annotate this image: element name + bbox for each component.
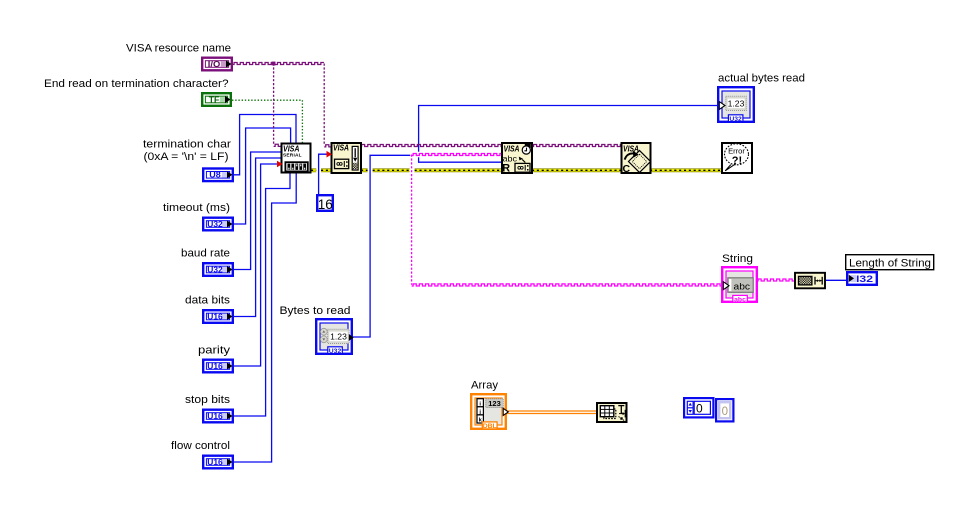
control terminal flow control (U16): [203, 456, 233, 469]
wire: End read on termination character? to serial-config node (dotted green): [232, 100, 302, 143]
svg-text:baud rate: baud rate: [181, 248, 230, 260]
svg-text:I/O: I/O: [208, 60, 221, 69]
svg-text:U32: U32: [729, 116, 742, 123]
wire: Bytes to read to VISA Read byte count: [353, 155, 410, 337]
svg-text:Array: Array: [471, 380, 499, 392]
control terminal timeout (U32): [203, 218, 233, 231]
svg-text:U32: U32: [329, 348, 342, 355]
wire: Array to Array Size (double orange): [507, 411, 598, 414]
svg-text:VISA: VISA: [333, 144, 349, 153]
wire: VISA resource branch down to buffer-size node: [324, 64, 333, 147]
svg-text:actual bytes read: actual bytes read: [718, 73, 805, 85]
svg-text:VISA: VISA: [283, 145, 300, 154]
op-node String Length: [795, 273, 825, 289]
svg-text:U16: U16: [207, 361, 223, 371]
numeric control 0 (data view): [684, 398, 713, 417]
wire: VISA resource branch down to serial-config node: [274, 64, 284, 147]
wire: VISA resource name horizontal run: [233, 62, 324, 64]
svg-text:End read on termination charac: End read on termination character?: [44, 78, 229, 90]
svg-text:parity: parity: [198, 345, 231, 357]
svg-text:C: C: [623, 163, 631, 175]
control terminal End read on termination character? (TF): [202, 93, 231, 106]
svg-text:U32: U32: [207, 264, 223, 274]
wire: VISA resource VISA Read to VISA Close: [532, 144, 623, 146]
svg-text:flow control: flow control: [171, 440, 230, 452]
wire: parity to serial-config node: [234, 164, 282, 366]
wire: flow control to serial-config node: [234, 172, 296, 462]
control terminal baud rate (U32): [203, 263, 233, 276]
label: termination char (0xA = '\n' = LF): [143, 139, 231, 163]
svg-text:U8: U8: [209, 170, 221, 180]
wire: data bits to serial-config node: [234, 158, 282, 317]
svg-text:abc: abc: [734, 282, 751, 292]
error wire: VISA Close to Simple Error Handler: [650, 169, 722, 172]
wire: VISA Read read buffer to String indicator (left, down, right): [412, 153, 723, 286]
op-node Simple Error Handler: [722, 143, 752, 173]
svg-text:0: 0: [722, 406, 728, 418]
svg-text:timeout (ms): timeout (ms): [163, 202, 230, 214]
op-node VISA Set I/O Buffer Size: [332, 143, 362, 173]
control Bytes to read (U32 icon terminal): [316, 319, 353, 355]
svg-text:termination char: termination char: [143, 139, 231, 151]
indicator actual bytes read (U32 icon terminal): [718, 87, 754, 123]
wire: VISA Read return count to actual bytes read: [418, 106, 718, 163]
svg-text:16: 16: [318, 197, 333, 212]
svg-text:Length of String: Length of String: [849, 258, 931, 270]
error wire: VISA Set I/O Buffer Size to VISA Read: [361, 169, 502, 172]
op-node VISA Configure Serial Port: [282, 144, 311, 173]
control terminal termination char (U8): [203, 169, 233, 182]
op-node Array Size: [597, 403, 627, 422]
control terminal VISA resource name (I/O): [202, 58, 232, 71]
svg-text:DBL: DBL: [483, 423, 497, 430]
control Array (DBL array icon terminal): [471, 394, 508, 430]
wire: VISA resource buffer-size node to VISA Read: [360, 144, 503, 146]
svg-text:VISA resource name: VISA resource name: [126, 43, 231, 55]
svg-text:VISA: VISA: [504, 145, 520, 154]
numeric indicator 0: [716, 399, 733, 421]
svg-text:0: 0: [696, 401, 703, 415]
svg-text:1.23: 1.23: [728, 99, 745, 109]
svg-text:123: 123: [488, 399, 501, 408]
svg-text:abc: abc: [734, 296, 746, 303]
control terminal stop bits (U16): [203, 410, 233, 423]
svg-text:U16: U16: [207, 457, 223, 467]
error wire: VISA Read to VISA Close: [532, 169, 621, 172]
indicator Length of String (I32 terminal): [847, 272, 877, 285]
wire: String indicator branch to String Length: [757, 279, 797, 281]
svg-text:VISA: VISA: [623, 145, 639, 154]
wire: stop bits to serial-config node: [234, 172, 290, 416]
svg-text:(0xA = '\n' = LF): (0xA = '\n' = LF): [144, 151, 229, 163]
indicator String (icon terminal): [722, 267, 757, 303]
control terminal data bits (U16): [203, 310, 233, 323]
wire: termination char to serial-config node: [234, 115, 296, 175]
svg-text:String: String: [722, 253, 753, 265]
numeric constant 16: [317, 195, 333, 212]
svg-text:R: R: [502, 163, 510, 175]
required-input arrow on serial-config node: [277, 161, 283, 168]
op-node VISA Read: [502, 143, 532, 175]
svg-text:U16: U16: [207, 411, 223, 421]
control terminal parity (U16): [203, 360, 233, 373]
svg-text:U32: U32: [207, 219, 223, 229]
required-input arrow on buffer-size node: [327, 151, 333, 158]
wire: constant 16 to buffer-size node: [319, 154, 330, 195]
wire: baud rate to serial-config node: [234, 152, 282, 270]
wire: timeout to serial-config node: [234, 128, 291, 224]
op-node VISA Close: [622, 143, 651, 175]
svg-text:SERIAL: SERIAL: [283, 153, 302, 159]
svg-text:TF: TF: [209, 94, 220, 104]
junction dot on VISA resource wire: [272, 62, 276, 66]
svg-text:U16: U16: [207, 311, 223, 321]
label box: Length of String: [846, 255, 934, 270]
svg-text:I32: I32: [856, 274, 873, 284]
error wire: VISA Configure Serial Port to VISA Set I/O Buffer Size: [311, 169, 331, 172]
svg-text:stop bits: stop bits: [185, 394, 231, 406]
svg-text:Bytes to read: Bytes to read: [280, 305, 351, 317]
wire: String Length to Length of String indicator: [826, 279, 847, 281]
svg-text:data bits: data bits: [185, 295, 231, 307]
svg-text:1.23: 1.23: [330, 332, 347, 342]
